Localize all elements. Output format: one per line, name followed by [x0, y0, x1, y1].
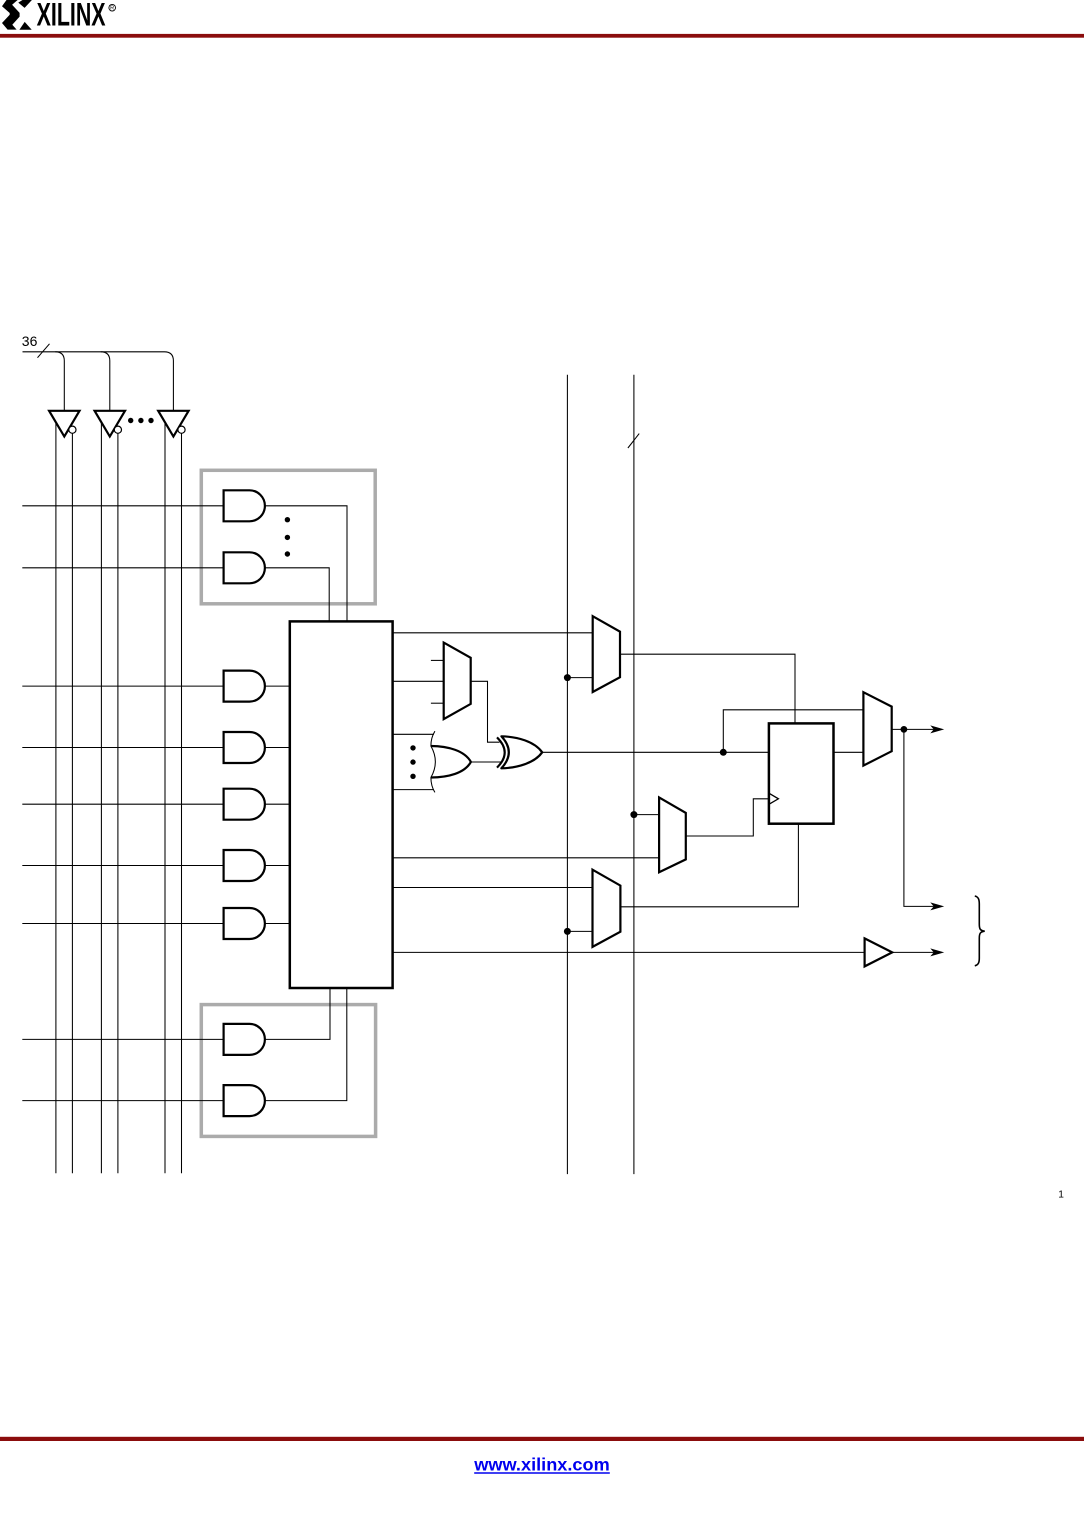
- wire allocator mux output to XOR top input: [471, 681, 500, 742]
- bus slash on vertical line 2: [628, 434, 639, 448]
- wire output AND gate 1 to array: [265, 506, 347, 622]
- wire output AND gate 6: [265, 865, 290, 867]
- wire array output o5 to mux B: [393, 857, 659, 859]
- gray group box bottom (product terms): [201, 1005, 375, 1137]
- wire true output buffer 1: [55, 422, 57, 1174]
- AND gate 2: [224, 552, 265, 583]
- wire register bypass branch to mux D: [723, 710, 863, 753]
- wire AND rail 1: [22, 505, 223, 507]
- wire output buffer to arrow: [892, 951, 934, 953]
- global vertical line 2: [633, 375, 635, 1174]
- AND gate 7: [224, 908, 265, 939]
- stub wire vertical 1 to mux C: [567, 930, 592, 932]
- input buffer 2: [95, 411, 125, 437]
- ellipsis dots OR inputs: [410, 745, 415, 779]
- wire array output o2 to allocator mux: [393, 680, 444, 682]
- OR gate: [431, 731, 471, 792]
- wire OR output to XOR lower input: [471, 761, 502, 763]
- wire AND rail 4: [22, 747, 223, 749]
- wire AND rail 3: [22, 685, 223, 687]
- AND gate 5: [224, 789, 265, 820]
- junction dot XOR output branch: [720, 749, 727, 756]
- wire array output o7 to output buffer: [393, 951, 865, 953]
- AND gate 1: [224, 490, 265, 521]
- registered trademark symbol: [109, 4, 116, 11]
- wire mux C output to flip-flop bottom: [620, 824, 798, 907]
- wire XOR output to flip-flop D input: [542, 751, 769, 753]
- XOR gate: [497, 736, 542, 768]
- arrowhead output 2: [930, 902, 944, 910]
- junction dot mux A select: [564, 674, 571, 681]
- wire branch to buffer 2: [101, 352, 110, 411]
- wire input bus trunk: [23, 352, 174, 411]
- wire mux B output to flip-flop clock: [686, 799, 769, 836]
- top red rule: [0, 34, 1084, 38]
- inversion bubble buffer 3: [178, 426, 185, 433]
- output buffer triangle: [865, 938, 893, 966]
- wire AND rail 8: [22, 1038, 223, 1040]
- svg-text:www.xilinx.com: www.xilinx.com: [473, 1455, 610, 1475]
- wire output AND gate 2 to array: [265, 568, 329, 622]
- wire complement output buffer 1: [71, 430, 73, 1173]
- mux C (set/reset select): [593, 870, 621, 947]
- ellipsis dots top group box: [285, 517, 290, 557]
- AND gate 6: [224, 850, 265, 881]
- svg-text:36: 36: [22, 333, 38, 349]
- AND gate 3: [224, 671, 265, 702]
- wire mux D output: [892, 728, 934, 730]
- AND gate 9: [224, 1085, 265, 1116]
- wire output AND gate 3: [265, 685, 290, 687]
- wire output AND gate 9 to array: [265, 988, 347, 1101]
- wire array output o3 to OR gate: [393, 733, 434, 735]
- arrowhead output 1: [930, 725, 944, 733]
- mux B (clock select): [659, 797, 686, 872]
- gray group box top (product terms): [201, 470, 375, 604]
- svg-text:1: 1: [1058, 1189, 1064, 1200]
- AND gate 8: [224, 1024, 265, 1055]
- brace grouping outputs: [975, 896, 985, 966]
- global vertical line 1: [566, 375, 568, 1174]
- wire feedback branch down: [904, 729, 934, 906]
- junction dot mux C select: [564, 928, 571, 935]
- flip-flop register: [769, 723, 834, 823]
- wire AND rail 2: [22, 567, 223, 569]
- wire AND rail 7: [22, 923, 223, 925]
- mux D (output select): [863, 692, 891, 765]
- wire output AND gate 8 to array: [265, 988, 330, 1039]
- svg-text:R: R: [110, 6, 114, 12]
- AND gate 4: [224, 732, 265, 763]
- stub input 2 allocator mux: [431, 702, 444, 704]
- footer link www.xilinx.com: [473, 1455, 610, 1475]
- stub input 1 allocator mux: [431, 659, 444, 661]
- product term allocator mux: [444, 643, 471, 720]
- mux A: [593, 616, 620, 692]
- wire array output o4 to OR gate: [393, 789, 434, 791]
- wire mux A output to flip-flop top: [620, 654, 795, 723]
- wire output AND gate 7: [265, 923, 290, 925]
- wire AND rail 6: [22, 865, 223, 867]
- wire flip-flop Q output to mux D: [834, 751, 864, 753]
- input buffer 3: [158, 411, 188, 437]
- stub wire vertical 1 to mux A: [567, 677, 592, 679]
- wire array output o6 to mux C: [393, 887, 593, 889]
- AND array block: [290, 621, 393, 988]
- inversion bubble buffer 2: [114, 426, 121, 433]
- arrowhead output 3: [930, 948, 944, 956]
- wire complement output buffer 2: [117, 430, 119, 1173]
- stub wire vertical 2 to mux B: [634, 814, 659, 816]
- bottom red rule: [0, 1437, 1084, 1441]
- inversion bubble buffer 1: [69, 426, 76, 433]
- junction dot output node: [901, 726, 908, 733]
- junction dot mux B select: [630, 811, 637, 818]
- wire AND rail 9: [22, 1100, 223, 1102]
- wire output AND gate 5: [265, 803, 290, 805]
- wire true output buffer 2: [100, 422, 102, 1174]
- input buffer 1: [49, 411, 79, 437]
- ellipsis dots between buffers: [128, 418, 154, 423]
- Xilinx logo X icon: [2, 0, 32, 30]
- bus width slash: [38, 344, 50, 358]
- clock wedge on flip-flop: [769, 793, 779, 804]
- wire branch to buffer 1: [55, 352, 64, 411]
- wire true output buffer 3: [164, 422, 166, 1174]
- wire AND rail 5: [22, 803, 223, 805]
- wire complement output buffer 3: [181, 430, 183, 1173]
- wire array output o1 to mux A: [393, 632, 593, 634]
- wire output AND gate 4: [265, 747, 290, 749]
- svg-text:XILINX: XILINX: [37, 0, 106, 33]
